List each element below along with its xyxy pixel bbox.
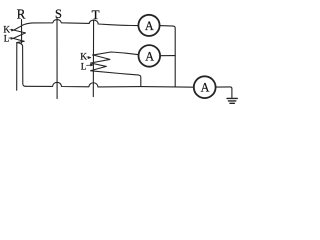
rheostat (slide resistor) on T line <box>91 55 110 71</box>
wire from mid tap K to ammeter A2 <box>93 52 139 55</box>
svg-text:A: A <box>145 19 154 33</box>
svg-text:S: S <box>55 7 62 21</box>
wire T vertical <box>92 20 94 96</box>
svg-text:A: A <box>201 81 210 95</box>
top bus wire R to A1 with hops over S and T <box>22 20 139 26</box>
wire A3 right to ground <box>216 87 232 98</box>
svg-text:A: A <box>145 49 154 63</box>
wire A1 right to vertical <box>160 26 176 87</box>
svg-text:L: L <box>81 63 87 73</box>
wire left drop from lower tap <box>16 43 18 91</box>
ammeter A1 circle <box>138 15 159 36</box>
arrow L to tap <box>9 37 14 39</box>
rheostat (slide resistor) on R line <box>13 26 25 43</box>
ground symbol <box>227 98 237 103</box>
wire S vertical <box>56 18 58 99</box>
terminal stub and R line through rheostat <box>21 20 23 43</box>
bottom bus wire with hops over S and T <box>25 82 194 87</box>
arrow K to mid tap <box>87 57 91 59</box>
arrow K to tap <box>10 29 14 31</box>
svg-text:L: L <box>4 33 10 43</box>
ammeter A3 circle <box>194 76 216 98</box>
arrow L to mid tap <box>87 64 94 66</box>
wire from mid tap L to bottom bus junction <box>91 71 141 87</box>
svg-text:K: K <box>80 52 87 62</box>
wire hook from rheostat bottom down to bottom bus corner <box>17 43 26 87</box>
wire A2 right to vertical <box>160 55 175 57</box>
ammeter A2 circle <box>139 45 161 67</box>
